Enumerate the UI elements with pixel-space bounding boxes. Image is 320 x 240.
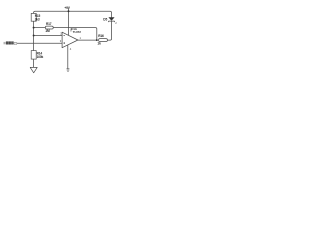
connector IN (input jack) — [4, 42, 6, 44]
wire input signal — [16, 42, 62, 44]
wire op-amp output — [78, 39, 97, 41]
wire V- stub — [67, 45, 69, 69]
wire bias column — [33, 21, 35, 50]
svg-text:R16: R16 — [98, 34, 104, 38]
svg-text:1M: 1M — [45, 29, 50, 33]
wire V+ stub — [68, 9, 70, 35]
resistor R15 — [31, 13, 36, 21]
svg-text:100k: 100k — [37, 55, 44, 59]
diode D5 — [108, 17, 114, 20]
svg-text:R17: R17 — [46, 22, 52, 26]
svg-text:TL072: TL072 — [73, 30, 81, 34]
node A junction dot lower — [33, 35, 35, 37]
node A junction dot upper — [33, 27, 35, 29]
resistor R16 — [99, 39, 108, 42]
wire R16 to diode — [107, 21, 111, 40]
resistor R14 — [31, 51, 36, 60]
ground (op-amp V-) — [67, 68, 70, 70]
node output junction dot — [96, 39, 98, 41]
svg-text:3k3: 3k3 — [35, 18, 40, 22]
svg-text:D5: D5 — [103, 17, 107, 21]
resistor R17 — [45, 26, 53, 29]
ground (bias divider) — [30, 67, 37, 72]
svg-text:1k: 1k — [97, 42, 101, 46]
background — [0, 0, 120, 85]
wire +9V top rail — [34, 11, 112, 17]
wire feedback line — [34, 28, 97, 40]
wire inverting input — [34, 35, 63, 37]
op-amp IC1A — [62, 32, 78, 48]
wire R14 to ground — [33, 59, 35, 67]
